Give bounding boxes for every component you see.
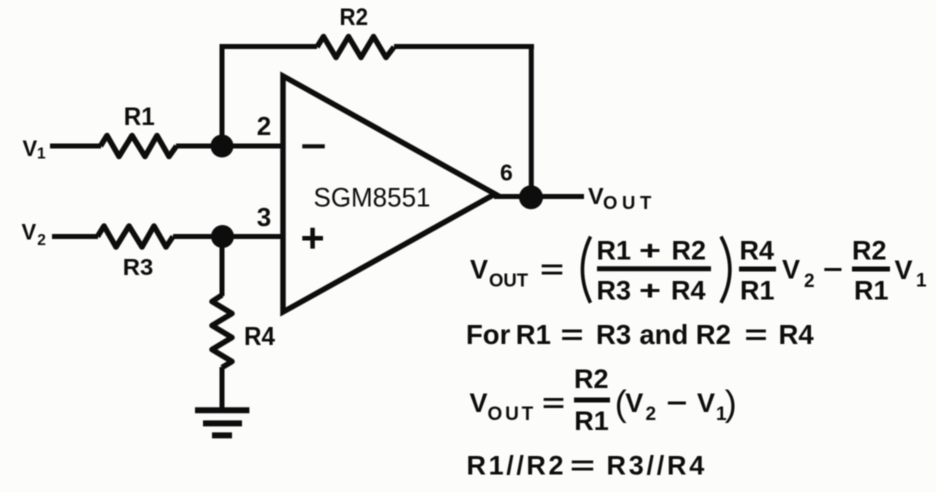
node: output junction [519, 185, 543, 209]
svg-text:2: 2 [646, 404, 657, 425]
formula 3: VOUT = (R2/R1)(V2 - V1) [470, 364, 737, 436]
svg-text:1: 1 [916, 271, 927, 292]
svg-text:V: V [895, 255, 913, 285]
svg-text:V: V [782, 255, 800, 285]
svg-text:+: + [639, 236, 661, 266]
wire: R3 to non-inverting input node [173, 234, 283, 239]
svg-text:−: − [667, 388, 688, 418]
svg-text:6: 6 [500, 159, 513, 185]
svg-text:2: 2 [37, 232, 46, 249]
svg-text:V: V [588, 183, 604, 209]
resistor R2 [317, 37, 394, 58]
big right parenthesis [721, 237, 730, 303]
svg-text:=: = [542, 388, 565, 418]
svg-text:2: 2 [804, 271, 815, 292]
svg-text:OUT: OUT [603, 192, 656, 213]
svg-text:OUT: OUT [488, 404, 537, 425]
svg-text:V: V [625, 388, 643, 418]
svg-text:=: = [561, 319, 584, 350]
svg-text:R4: R4 [779, 319, 815, 350]
svg-text:R1//R2: R1//R2 [467, 451, 567, 481]
svg-text:R4: R4 [244, 321, 275, 351]
svg-text:For: For [466, 319, 511, 350]
svg-text:−: − [823, 255, 843, 285]
wire: feedback right vertical [529, 44, 534, 197]
op-amp inverting input minus sign [302, 144, 325, 148]
formula 2: For R1 = R3 and R2 = R4 [466, 319, 814, 350]
wire: R1 to inverting input node [176, 144, 283, 149]
svg-text:R3: R3 [123, 254, 154, 280]
svg-text:R2: R2 [672, 236, 707, 266]
svg-text:R2: R2 [696, 319, 731, 350]
formula 1: VOUT = ((R1+R2)/(R3+R4))(R4/R1)V2 - (R2/R1)V1 [470, 236, 927, 306]
resistor R3 [98, 226, 174, 247]
wire: top feedback right segment [394, 44, 534, 49]
wire: R4 bottom lead [220, 367, 225, 410]
wire: top feedback left segment [220, 44, 318, 49]
svg-text:R2: R2 [574, 364, 609, 394]
svg-text:and: and [639, 319, 688, 350]
svg-text:+: + [639, 276, 661, 306]
node: non-inverting input junction [211, 225, 234, 248]
svg-text:R1: R1 [516, 319, 551, 350]
op-amp U1 SGM8551 triangle [283, 76, 495, 312]
ground [195, 410, 249, 435]
svg-text:V: V [697, 388, 715, 418]
svg-text:R2: R2 [852, 236, 887, 266]
svg-text:R3: R3 [597, 276, 632, 306]
wire: output lead [494, 194, 584, 199]
svg-text:R4: R4 [740, 236, 775, 266]
big left parenthesis [582, 237, 590, 303]
wire: feedback left vertical [220, 44, 225, 146]
resistor R4 [212, 295, 232, 368]
svg-text:3: 3 [257, 202, 271, 232]
svg-text:OUT: OUT [489, 270, 529, 291]
wire: V1 input lead [50, 144, 101, 149]
svg-text:R2: R2 [340, 4, 369, 31]
formula 4: R1//R2 = R3//R4 [467, 451, 708, 481]
svg-text:V: V [470, 255, 488, 285]
svg-text:=: = [540, 255, 564, 285]
svg-text:2: 2 [257, 111, 271, 141]
svg-text:R3: R3 [596, 319, 631, 350]
wire: R4 top lead [220, 237, 225, 297]
svg-text:R1: R1 [597, 236, 632, 266]
svg-text:=: = [745, 319, 768, 350]
svg-text:R1: R1 [740, 276, 775, 306]
wire: V2 input lead [52, 234, 98, 239]
svg-text:V: V [470, 388, 488, 418]
node: inverting input junction [211, 135, 234, 158]
svg-text:R1: R1 [854, 276, 889, 306]
svg-text:1: 1 [37, 146, 46, 163]
svg-text:R3//R4: R3//R4 [607, 451, 708, 481]
svg-text:R1: R1 [574, 406, 609, 436]
op-amp non-inverting input plus sign [302, 228, 323, 249]
svg-text:): ) [725, 383, 737, 424]
svg-text:R1: R1 [124, 103, 155, 131]
svg-text:V: V [22, 220, 37, 245]
svg-text:R4: R4 [671, 276, 706, 306]
svg-text:SGM8551: SGM8551 [314, 183, 431, 213]
svg-text:V: V [23, 136, 38, 161]
svg-text:=: = [570, 451, 595, 481]
resistor R1 [101, 136, 177, 157]
